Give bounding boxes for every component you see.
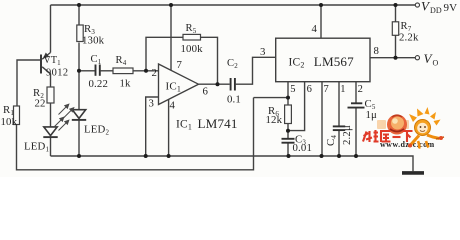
svg-text:R4: R4 <box>116 55 127 67</box>
svg-text:130k: 130k <box>82 35 105 47</box>
svg-text:LED2: LED2 <box>84 124 109 137</box>
svg-text:12k: 12k <box>266 114 283 126</box>
svg-text:IC1: IC1 <box>166 81 181 94</box>
svg-text:0.22: 0.22 <box>89 78 109 90</box>
svg-text:LM567: LM567 <box>314 54 354 69</box>
svg-text:O: O <box>433 59 439 68</box>
svg-text:LED1: LED1 <box>24 141 49 154</box>
svg-text:0.01: 0.01 <box>293 142 313 154</box>
svg-text:R5: R5 <box>186 23 197 35</box>
svg-text:C1: C1 <box>91 54 102 66</box>
svg-text:4: 4 <box>170 100 176 112</box>
svg-text:2: 2 <box>358 84 363 95</box>
svg-text:2.2μ: 2.2μ <box>341 125 353 145</box>
svg-text:1k: 1k <box>120 78 132 90</box>
svg-text:7: 7 <box>177 59 183 71</box>
svg-text:6: 6 <box>307 84 312 95</box>
svg-text:8: 8 <box>374 45 380 57</box>
svg-text:1: 1 <box>340 84 345 95</box>
svg-text:VT1: VT1 <box>44 55 62 67</box>
svg-text:C2: C2 <box>227 58 238 70</box>
svg-text:9V: 9V <box>444 2 458 14</box>
svg-text:5: 5 <box>290 84 295 95</box>
svg-text:3: 3 <box>149 98 155 110</box>
svg-text:3: 3 <box>260 46 266 58</box>
svg-text:IC2: IC2 <box>289 57 305 70</box>
svg-text:2.2k: 2.2k <box>399 32 419 44</box>
svg-text:9012: 9012 <box>46 68 69 79</box>
svg-text:100k: 100k <box>181 43 204 55</box>
svg-text:IC1: IC1 <box>176 119 192 132</box>
svg-text:4: 4 <box>312 23 318 35</box>
svg-text:22: 22 <box>35 98 46 110</box>
svg-text:1μ: 1μ <box>366 109 378 121</box>
svg-text:LM741: LM741 <box>198 116 238 131</box>
svg-text:10k: 10k <box>1 116 18 128</box>
svg-text:6: 6 <box>203 86 209 98</box>
svg-text:7: 7 <box>324 84 329 95</box>
svg-text:C4: C4 <box>325 135 338 146</box>
svg-text:DD: DD <box>430 6 442 15</box>
svg-text:0.1: 0.1 <box>227 94 241 106</box>
svg-text:2: 2 <box>152 67 158 79</box>
